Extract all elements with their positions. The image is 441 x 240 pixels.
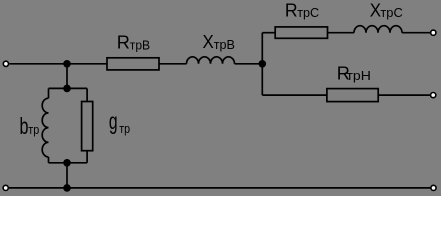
svg-text:b: b xyxy=(20,114,29,139)
svg-text:трС: трС xyxy=(297,5,319,20)
svg-text:тр: тр xyxy=(119,121,130,136)
svg-text:g: g xyxy=(109,109,118,135)
svg-text:трВ: трВ xyxy=(130,38,150,52)
svg-text:трН: трН xyxy=(347,68,371,82)
svg-text:тр: тр xyxy=(28,122,39,137)
svg-text:трС: трС xyxy=(380,5,402,20)
svg-text:X: X xyxy=(203,32,215,53)
svg-text:R: R xyxy=(117,33,130,53)
svg-text:R: R xyxy=(285,0,298,20)
svg-text:трВ: трВ xyxy=(214,37,235,52)
